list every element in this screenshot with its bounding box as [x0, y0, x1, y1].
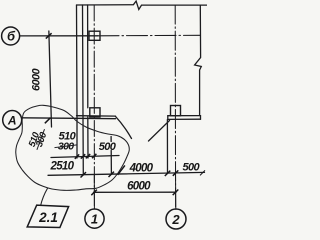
beam right end cap	[200, 116, 202, 120]
svg-text:6000: 6000	[127, 180, 151, 192]
tick line C x83.3	[81, 172, 87, 177]
revision cloud	[16, 105, 130, 190]
svg-text:А: А	[7, 114, 17, 128]
svg-text:1: 1	[91, 211, 98, 226]
axis circle А	[3, 111, 22, 130]
right edge line with break	[195, 5, 202, 115]
axis 1 solid stub to circle	[93, 175, 95, 209]
strike line rotated 300	[37, 129, 45, 150]
beam right break diagonal	[149, 121, 170, 142]
wall line third	[87, 5, 89, 108]
beam left top edge	[77, 115, 116, 117]
axis Б horizontal solid part	[20, 35, 98, 37]
extension line x87.8	[87, 117, 89, 158]
extension line wall face right x83	[82, 118, 84, 175]
tick line B x94.3	[92, 154, 96, 158]
dimension ticks 45deg	[45, 33, 205, 195]
top edge line with break	[77, 1, 208, 9]
wall line inner face	[82, 5, 85, 118]
tick line D x175.5	[173, 190, 179, 196]
svg-text:500: 500	[99, 141, 117, 153]
svg-text:2510: 2510	[50, 161, 75, 173]
tick line B x77	[75, 154, 79, 158]
wall line left face	[76, 5, 79, 118]
tick line C right end	[200, 170, 205, 175]
tick slash 4000 left	[118, 165, 125, 175]
svg-text:500: 500	[183, 161, 201, 173]
svg-text:4000: 4000	[129, 162, 154, 174]
tick line C x175.5	[173, 170, 179, 175]
tick line C x111.3	[109, 172, 115, 177]
tick line B x88	[86, 154, 90, 158]
connection square on axis 1 top	[89, 31, 100, 40]
axis 2 solid stub to circle	[175, 173, 177, 209]
svg-text:б: б	[7, 29, 16, 44]
extension line x111.3	[110, 137, 112, 142]
svg-text:2.1: 2.1	[38, 210, 58, 225]
svg-text:2: 2	[171, 212, 180, 227]
column 2 section square	[171, 106, 181, 116]
beam right top edge	[168, 115, 201, 117]
tick line C x167.5	[165, 171, 171, 176]
axis circle 2	[166, 209, 186, 229]
column 1 section square	[90, 108, 100, 117]
svg-text:6000: 6000	[30, 67, 42, 91]
svg-text:300: 300	[34, 130, 50, 148]
leader to flag 2.1	[41, 188, 48, 206]
dimension line C	[48, 172, 205, 175]
extension line wall face left	[76, 118, 78, 158]
vertical dimension line 6000 left	[49, 31, 52, 127]
extension line x167.4	[166, 120, 168, 173]
dimension line B	[51, 156, 119, 158]
axis circle 1	[85, 209, 104, 228]
axis Б horizontal dash-dot part	[98, 34, 200, 37]
tick line B x83	[81, 154, 85, 158]
tick line D x94	[91, 190, 97, 196]
axis A line / upper dimension line	[22, 117, 116, 120]
beam right left end cap	[167, 116, 169, 120]
beam left break diagonal	[116, 116, 132, 138]
tick line A x49	[45, 118, 51, 124]
flag 2.1 parallelogram	[27, 205, 68, 227]
beam right bottom edge	[168, 118, 201, 120]
axis 2 vertical dash-dot	[174, 5, 176, 209]
tick B axis x49	[46, 33, 52, 38]
dimension line D 6000	[94, 191, 177, 193]
axis 1 vertical dash-dot	[93, 5, 95, 209]
strike line 300	[55, 145, 78, 148]
axis circle Б	[2, 27, 20, 45]
